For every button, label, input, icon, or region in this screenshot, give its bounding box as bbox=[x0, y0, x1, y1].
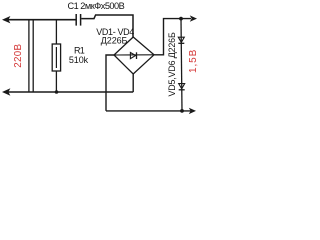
junction dot bottom right bbox=[180, 109, 184, 113]
wire C1 to bridge top vertex bbox=[81, 15, 133, 38]
wire bridge left vertex to minus rail bbox=[106, 55, 114, 111]
connector line left bbox=[28, 20, 30, 92]
capacitor C1 plate left bbox=[75, 14, 77, 26]
bridge internal diode cathode bar bbox=[136, 52, 138, 59]
svg-text:220В: 220В bbox=[13, 44, 24, 68]
svg-text:Д226Б: Д226Б bbox=[101, 35, 128, 45]
output arrow plus (top right) bbox=[190, 15, 197, 21]
wire bottom-left rail bbox=[6, 91, 133, 93]
plug pin arrow top (to 220V mains) bbox=[2, 16, 10, 23]
bridge rectifier VD1-VD4 diamond bbox=[114, 37, 154, 74]
diode VD6 cathode bar bbox=[179, 89, 185, 91]
plug pin arrow bottom (to 220V mains) bbox=[2, 88, 10, 95]
output arrow minus (bottom right) bbox=[189, 108, 196, 114]
svg-text:VD5,VD6 Д226Б: VD5,VD6 Д226Б bbox=[167, 32, 177, 96]
bridge internal diode line bbox=[114, 54, 154, 56]
wire VD5/VD6 chain bbox=[181, 19, 182, 111]
diode VD5 triangle bbox=[178, 37, 184, 42]
wire top-left rail bbox=[6, 19, 76, 21]
wire R1 top lead bbox=[55, 20, 57, 45]
diode VD6 triangle bbox=[179, 84, 185, 89]
diode VD5 cathode bar bbox=[178, 42, 184, 44]
svg-text:1,5В: 1,5В bbox=[188, 49, 199, 73]
wire through R1 body bbox=[55, 47, 57, 68]
junction dot R1 bottom bbox=[55, 90, 59, 94]
wire R1 bottom lead bbox=[55, 71, 57, 92]
capacitor C1 plate right bbox=[80, 14, 82, 26]
svg-text:R1: R1 bbox=[74, 46, 85, 56]
bridge internal diode triangle bbox=[130, 53, 135, 59]
svg-text:С1 2мкФх500В: С1 2мкФх500В bbox=[68, 1, 125, 11]
junction dot top right bbox=[179, 17, 183, 21]
wire bottom-right rail bbox=[106, 110, 191, 112]
wire bridge right vertex to plus rail bbox=[154, 19, 191, 55]
svg-text:510k: 510k bbox=[69, 55, 89, 65]
resistor R1 body bbox=[52, 44, 60, 71]
connector line right bbox=[32, 20, 34, 92]
wire bridge bottom vertex lead bbox=[132, 74, 134, 92]
